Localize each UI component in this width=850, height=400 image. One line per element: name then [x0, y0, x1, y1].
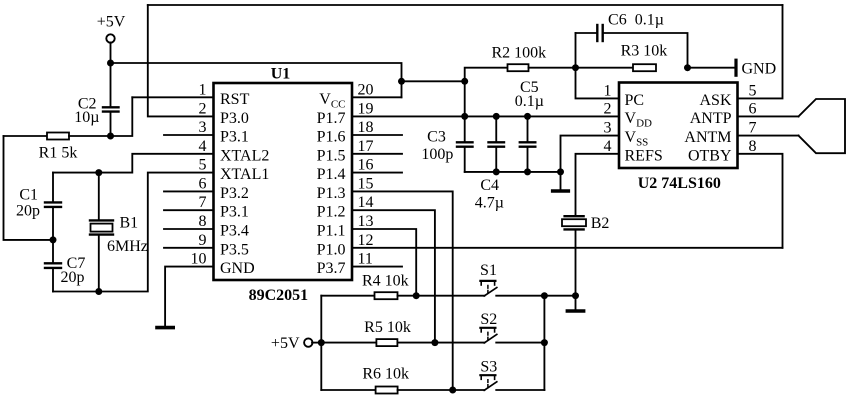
wire C3 top lead: [464, 116, 466, 141]
svg-text:P1.1: P1.1: [317, 223, 346, 240]
svg-text:U2 74LS160: U2 74LS160: [638, 175, 721, 192]
svg-text:P3.5: P3.5: [220, 241, 249, 258]
svg-text:ANTP: ANTP: [690, 110, 732, 127]
svg-text:1: 1: [604, 82, 612, 99]
svg-text:P1.6: P1.6: [317, 129, 346, 146]
svg-text:7: 7: [749, 120, 757, 137]
wire C2 node to RST jog: [111, 97, 133, 136]
svg-text:3: 3: [199, 119, 207, 136]
resistor R6: [376, 387, 398, 394]
svg-text:5: 5: [199, 157, 207, 174]
wire C5 top lead: [527, 116, 529, 141]
wire S3 to common bus: [496, 389, 544, 391]
wire R2 to R3 node: [529, 67, 634, 69]
svg-text:P3.1: P3.1: [220, 204, 249, 221]
svg-text:6: 6: [749, 100, 757, 117]
wire OTBY down to P1.0 rail: [738, 154, 783, 248]
wire R1 to C2 node: [69, 135, 111, 137]
capacitor C7: [45, 262, 61, 264]
wire +5V terminal to bus: [312, 342, 321, 344]
svg-text:C6 0.1µ: C6 0.1µ: [608, 11, 664, 28]
wire R4 row left: [321, 295, 374, 297]
svg-text:R2 100k: R2 100k: [491, 45, 546, 62]
wire ground stub under switches: [575, 296, 577, 310]
wire R2 left vertical: [465, 68, 508, 117]
svg-text:+5V: +5V: [97, 14, 126, 31]
node junction +5V bus: [318, 339, 325, 346]
svg-text:REFS: REFS: [625, 147, 663, 164]
svg-text:ASK: ASK: [699, 92, 731, 109]
svg-text:P1.3: P1.3: [317, 185, 346, 202]
U1 stub pin 17: [352, 153, 402, 155]
svg-text:GND: GND: [742, 61, 777, 78]
svg-text:P1.4: P1.4: [317, 166, 346, 183]
svg-text:100p: 100p: [421, 146, 453, 163]
resistor R2: [508, 64, 529, 71]
wire P1.0 rail (U1 pin 12 to OTBY): [352, 247, 783, 249]
svg-text:20p: 20p: [16, 203, 40, 220]
svg-text:P3.1: P3.1: [220, 129, 249, 146]
node junction C4 top: [493, 113, 500, 120]
wire R1 row left: [4, 135, 48, 137]
svg-text:P1.0: P1.0: [317, 241, 346, 258]
ground (under U1): [157, 326, 173, 330]
wire U1 pin 20 stub: [352, 96, 402, 98]
node junction Vss/ground row: [557, 168, 564, 175]
svg-text:C1: C1: [19, 186, 38, 203]
U1 stub pin 7: [164, 209, 214, 211]
svg-text:15: 15: [358, 175, 374, 192]
capacitor C3: [457, 141, 473, 143]
svg-text:RST: RST: [220, 91, 250, 108]
node junction C2/R1/RST: [107, 133, 114, 140]
wire B2 bottom lead: [575, 231, 577, 296]
wire RST (U1 pin 1): [132, 96, 213, 98]
switch S2: [480, 327, 495, 329]
wire Vcc branch: [402, 80, 465, 82]
node junction S1/common bus: [541, 292, 548, 299]
wire left rail down from top: [148, 5, 214, 116]
svg-text:R5 10k: R5 10k: [364, 319, 411, 336]
wire P1.7 row to U2 VDD: [352, 115, 619, 117]
svg-text:11: 11: [358, 251, 373, 268]
svg-text:17: 17: [358, 138, 374, 155]
svg-text:1: 1: [199, 81, 207, 98]
svg-text:8: 8: [199, 213, 207, 230]
wire common bus vertical: [543, 296, 545, 390]
wire C6 left vertical: [575, 33, 577, 68]
svg-text:20p: 20p: [61, 269, 85, 286]
node junction R2/R3/C6/PC: [572, 64, 579, 71]
wire U1 GND pin to ground: [165, 267, 213, 326]
wire C5 bottom lead: [527, 148, 529, 172]
op-amp U2 74LS160 box: [619, 83, 738, 169]
svg-text:89C2051: 89C2051: [249, 287, 309, 304]
svg-text:R4 10k: R4 10k: [362, 273, 409, 290]
node junction C5 top: [524, 113, 531, 120]
wire R6 row left: [321, 389, 375, 391]
svg-text:19: 19: [358, 100, 374, 117]
crystal B1: [90, 219, 113, 221]
wire Vss to ground row: [561, 136, 620, 172]
svg-text:ANTM: ANTM: [684, 129, 731, 146]
U1 stub pin 8: [164, 228, 214, 230]
node junction Vcc branch left: [398, 78, 405, 85]
wire R5 to S2: [397, 342, 484, 344]
svg-text:0.1µ: 0.1µ: [515, 93, 544, 110]
ground GND terminal bar: [734, 60, 737, 75]
capacitor C5: [520, 141, 536, 143]
U1 stub pin 3: [164, 134, 214, 136]
crystal B2: [565, 215, 584, 217]
svg-text:13: 13: [358, 213, 374, 230]
svg-text:20: 20: [358, 81, 374, 98]
svg-text:PC: PC: [625, 92, 645, 109]
wire P1.1 to R4 row: [352, 229, 416, 296]
wire left vertical R1 to C1/C7 node: [4, 136, 54, 240]
resistor R1: [47, 133, 69, 140]
wire P1.2 to R5 row: [352, 210, 435, 342]
wire ASK to top rail: [738, 5, 783, 98]
svg-text:8: 8: [749, 138, 757, 155]
svg-text:+5V: +5V: [271, 335, 300, 352]
svg-text:6: 6: [199, 175, 207, 192]
wire C7 bottom lead: [52, 269, 54, 291]
node junction B1 bottom: [95, 288, 102, 295]
wire R5 row left: [321, 342, 376, 344]
node junction S2/common bus: [541, 339, 548, 346]
wire S2 to common bus: [496, 342, 544, 344]
U1 stub pin 11: [352, 266, 402, 268]
node junction C4 bottom: [493, 168, 500, 175]
svg-text:P3.7: P3.7: [317, 260, 346, 277]
resistor R3: [633, 64, 656, 71]
svg-text:18: 18: [358, 119, 374, 136]
node junction B1 top: [95, 169, 102, 176]
svg-text:GND: GND: [220, 260, 255, 277]
wire C1 top lead to XTAL2 row: [52, 173, 54, 202]
svg-text:16: 16: [358, 157, 374, 174]
node +5V terminal (top): [106, 34, 114, 42]
wire ground stub under caps: [560, 172, 562, 189]
wire C4 top lead: [495, 116, 497, 141]
wire C1 bottom lead: [52, 208, 54, 262]
node junction R3/GND: [684, 64, 691, 71]
svg-text:S2: S2: [480, 311, 497, 328]
svg-text:7: 7: [199, 194, 207, 211]
svg-text:2: 2: [604, 100, 612, 117]
capacitor C1: [45, 201, 61, 203]
U1 stub pin 6: [164, 190, 214, 192]
svg-text:P3.0: P3.0: [220, 110, 249, 127]
svg-text:P1.5: P1.5: [317, 147, 346, 164]
antenna horn: [799, 99, 846, 153]
node +5V terminal (bottom): [304, 338, 312, 346]
wire ANTP feed: [738, 115, 799, 117]
wire XTAL1 row: [53, 173, 214, 292]
svg-text:3: 3: [604, 120, 612, 137]
svg-text:S3: S3: [480, 359, 497, 376]
wire C2 top lead: [110, 63, 112, 106]
svg-text:XTAL1: XTAL1: [220, 166, 269, 183]
wire XTAL2 row: [53, 154, 214, 173]
node junction C5 bottom: [524, 168, 531, 175]
node junction +5V/C2: [107, 60, 114, 67]
svg-text:4: 4: [604, 138, 612, 155]
node junction C1/C7: [50, 236, 57, 243]
svg-text:P1.7: P1.7: [317, 110, 346, 127]
node junction C3 top: [461, 113, 468, 120]
capacitor C2: [103, 106, 119, 108]
node junction Vcc branch right: [461, 78, 468, 85]
wire ANTM feed: [738, 135, 799, 137]
svg-text:OTBY: OTBY: [688, 147, 732, 164]
svg-text:4: 4: [199, 138, 207, 155]
svg-text:R6 10k: R6 10k: [362, 365, 409, 382]
ground (under switches): [567, 309, 583, 313]
switch S1: [480, 280, 495, 282]
wire S1 to ground node: [496, 295, 575, 297]
svg-text:10µ: 10µ: [74, 109, 99, 126]
wire PC vertical: [576, 68, 620, 99]
svg-text:9: 9: [199, 232, 207, 249]
svg-text:P3.4: P3.4: [220, 223, 249, 240]
wire C3 bottom lead: [464, 148, 466, 172]
wire REFS to B2: [576, 154, 620, 215]
svg-text:10: 10: [191, 251, 207, 268]
svg-text:P1.2: P1.2: [317, 204, 346, 221]
svg-text:2: 2: [199, 100, 207, 117]
resistor R5: [376, 339, 397, 346]
svg-text:12: 12: [358, 232, 374, 249]
capacitor C6: [596, 25, 598, 41]
wire C6 right lead: [604, 33, 688, 68]
U1 stub pin 9: [164, 247, 214, 249]
U1 stub pin 18: [352, 134, 402, 136]
wire C2 bottom lead: [110, 113, 112, 136]
wire Vcc rail to U1 pin 20: [111, 63, 402, 97]
switch S3: [480, 374, 495, 376]
svg-text:C3: C3: [427, 128, 446, 145]
wire C6 left lead: [576, 32, 597, 34]
ground (under caps): [553, 189, 569, 193]
wire +5V terminal down to Vcc rail: [110, 43, 112, 64]
wire +5V bus vertical: [320, 296, 322, 390]
svg-text:5: 5: [749, 82, 757, 99]
capacitor C4: [489, 141, 505, 143]
wire C4 bottom lead: [495, 148, 497, 172]
wire top rail P3.0 to ASK: [148, 4, 783, 6]
wire R4 to S1: [398, 295, 485, 297]
wire R6 to S3: [398, 389, 485, 391]
svg-text:R1 5k: R1 5k: [39, 144, 78, 161]
svg-text:S1: S1: [480, 262, 497, 279]
node junction R4/P1.1: [413, 292, 420, 299]
wire B1 top lead: [98, 173, 100, 220]
svg-text:R3 10k: R3 10k: [621, 43, 668, 60]
svg-text:U1: U1: [271, 66, 291, 83]
U1 stub pin 16: [352, 172, 402, 174]
resistor R4: [375, 292, 398, 299]
wire R3 to GND terminal: [688, 67, 735, 69]
node junction R6/P1.3: [449, 387, 456, 394]
node junction R5/P1.2: [431, 339, 438, 346]
svg-text:B2: B2: [591, 215, 610, 232]
node junction B2/switch ground: [572, 292, 579, 299]
wire P1.3 to R6 row: [352, 191, 453, 390]
svg-text:P3.2: P3.2: [220, 185, 249, 202]
op-amp U1 89C2051 box: [214, 83, 353, 280]
svg-text:XTAL2: XTAL2: [220, 147, 269, 164]
svg-text:B1: B1: [120, 214, 139, 231]
svg-text:C4: C4: [480, 177, 499, 194]
wire capacitor ground row: [465, 171, 561, 173]
svg-text:14: 14: [358, 194, 374, 211]
svg-text:4.7µ: 4.7µ: [475, 195, 504, 212]
wire B1 bottom lead: [98, 236, 100, 292]
svg-text:6MHz: 6MHz: [107, 238, 148, 255]
